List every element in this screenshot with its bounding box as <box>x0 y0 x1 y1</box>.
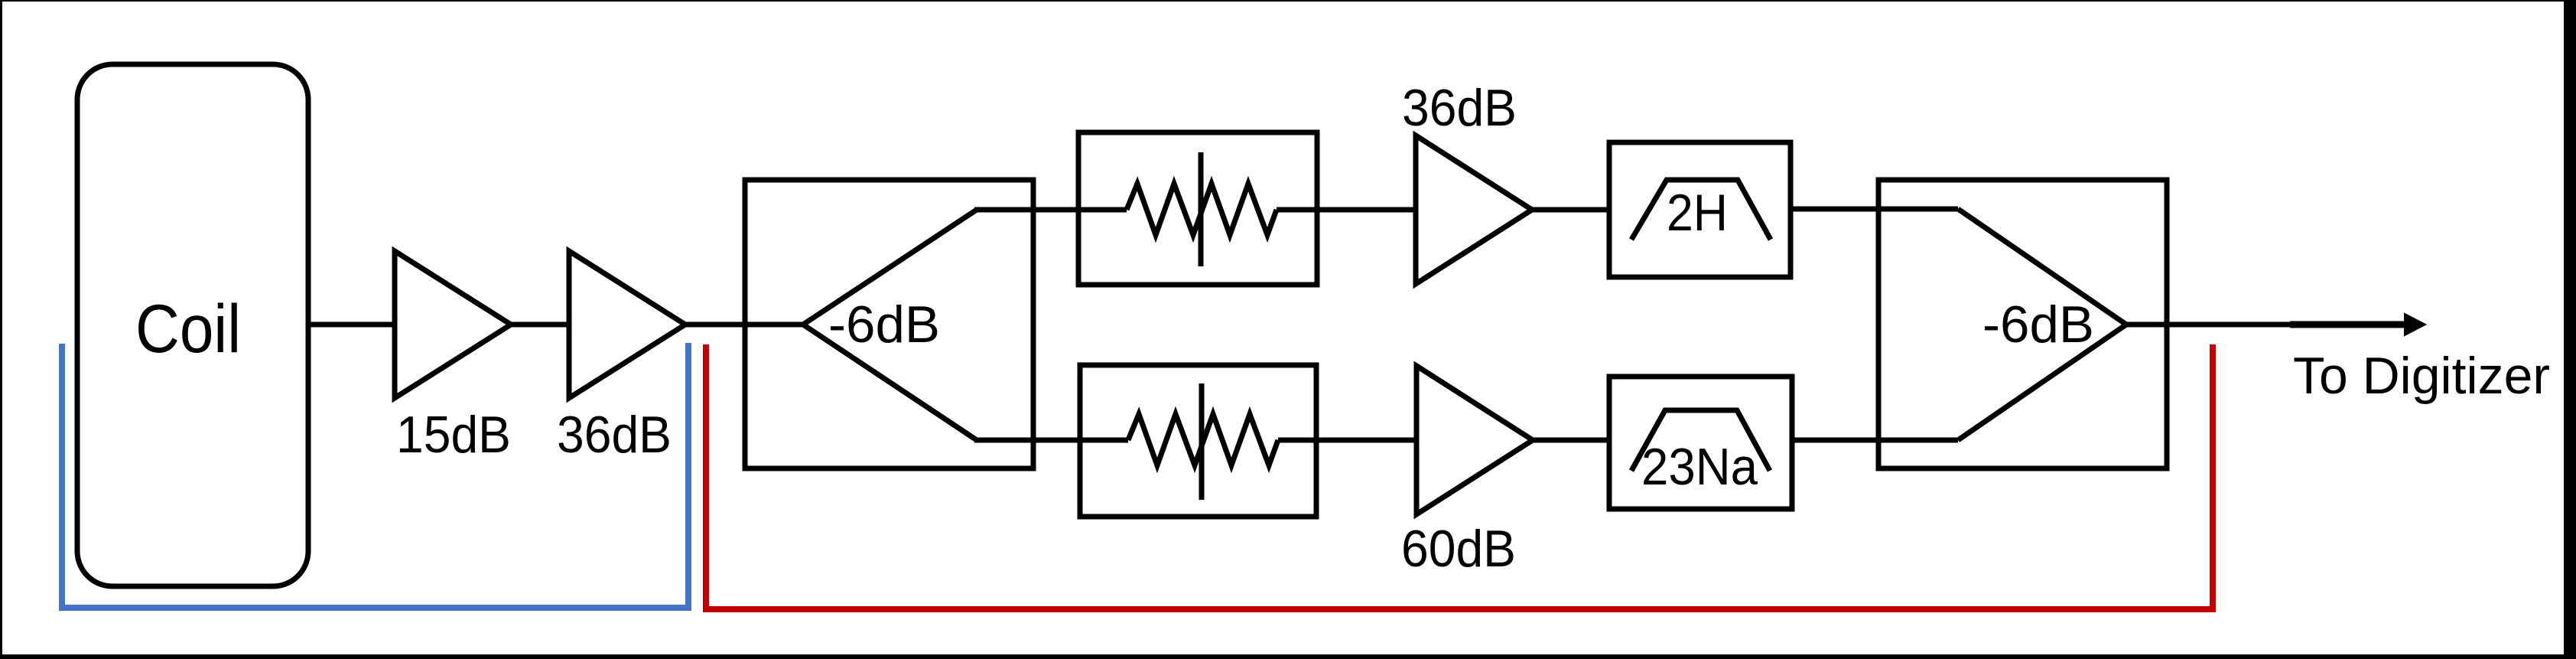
variable attenuator box (bottom) <box>1080 365 1316 517</box>
wire amp to 2H filter <box>1532 207 1609 213</box>
amplifier A2 (36dB preamp) <box>569 251 685 398</box>
frame border left <box>0 0 2 659</box>
svg-text:36dB: 36dB <box>557 406 672 464</box>
svg-text:-6dB: -6dB <box>828 295 940 354</box>
wire amp A1 to amp A2 <box>511 322 569 328</box>
output wire from combiner <box>2126 322 2295 328</box>
23Na filter trapezoid <box>1631 410 1770 471</box>
wire attenuator to amp 36dB (top) <box>1317 207 1416 213</box>
bandpass filter box 2H <box>1609 142 1791 277</box>
output arrow shaft <box>2290 321 2406 328</box>
svg-text:60dB: 60dB <box>1401 520 1516 578</box>
attenuator wiper line (top) <box>1199 152 1204 266</box>
svg-text:36dB: 36dB <box>1402 79 1517 137</box>
svg-text:2H: 2H <box>1667 184 1728 242</box>
attenuator resistor zigzag (bottom) <box>1128 414 1278 465</box>
svg-text:To Digitizer: To Digitizer <box>2293 347 2550 405</box>
attenuator wiper line (bottom) <box>1199 383 1205 500</box>
attenuator resistor zigzag (top) <box>1127 184 1277 235</box>
wire splitter to attenuator (top) <box>974 207 1127 213</box>
variable attenuator box (top) <box>1078 132 1317 285</box>
wire 2H filter to combiner <box>1791 207 1878 212</box>
amplifier 60dB (bottom path) <box>1416 366 1533 514</box>
amplifier 36dB (top path) <box>1416 135 1532 284</box>
attenuator lead-in wire (bottom) <box>1080 438 1128 443</box>
wire 23Na filter to combiner <box>1792 438 1878 443</box>
bandpass filter box 23Na <box>1609 377 1792 509</box>
attenuator lead-out wire (bottom) <box>1278 438 1316 443</box>
wire amp to 23Na filter <box>1533 438 1609 443</box>
svg-text:-6dB: -6dB <box>1982 295 2094 354</box>
combiner top input wire <box>1878 207 1958 212</box>
attenuator lead-out wire (top) <box>1277 207 1317 213</box>
splitter input wire <box>745 322 803 328</box>
combiner bottom input wire <box>1878 438 1958 443</box>
wire attenuator to amp 60dB <box>1316 438 1416 443</box>
wire coil to amp A1 <box>308 322 395 328</box>
blue coax cable (coil to preamp junction) <box>62 343 688 608</box>
output arrowhead <box>2405 314 2425 335</box>
red coax cable (preamp junction to digitizer) <box>706 344 2213 609</box>
combiner box <box>1878 180 2167 468</box>
amplifier A1 (15dB preamp) <box>395 251 511 398</box>
combiner wedge <box>1958 209 2126 440</box>
frame border right <box>2564 0 2576 659</box>
svg-text:Coil: Coil <box>135 290 241 367</box>
splitter box <box>745 180 1033 468</box>
frame border top <box>0 0 2576 2</box>
svg-text:15dB: 15dB <box>396 406 511 464</box>
coil (rounded box) <box>77 64 308 586</box>
splitter wedge <box>803 210 977 440</box>
2H filter trapezoid <box>1631 180 1771 240</box>
frame border bottom <box>0 654 2576 659</box>
wire amp A2 to splitter <box>685 322 745 328</box>
wire splitter to attenuator (bottom) <box>974 438 1128 443</box>
svg-text:23Na: 23Na <box>1641 438 1758 496</box>
attenuator lead-in wire (top) <box>1078 207 1127 213</box>
